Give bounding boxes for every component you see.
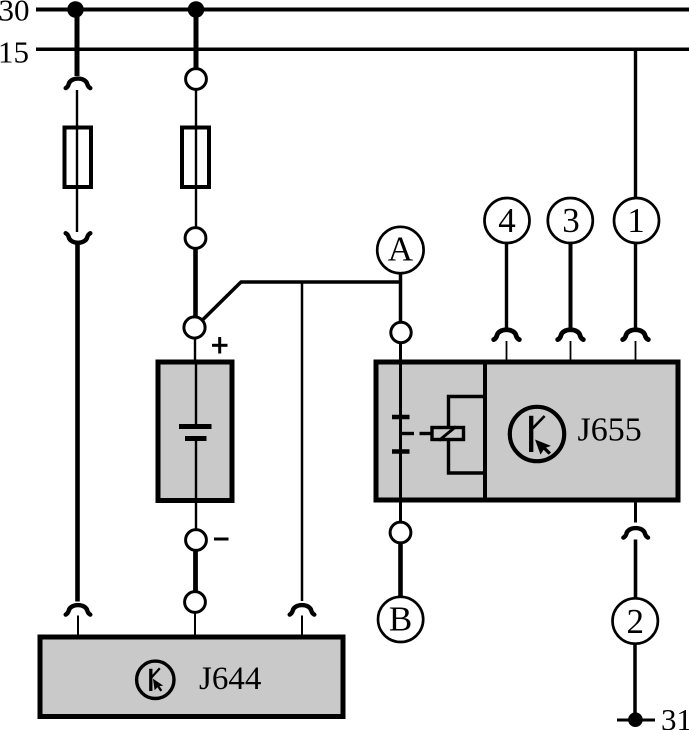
control unit symbol K in J644 [137, 661, 174, 698]
svg-text:B: B [389, 600, 412, 639]
svg-text:J644: J644 [199, 661, 261, 697]
dashed link to coil [401, 432, 432, 435]
wire stub into J655 pin1 [635, 341, 637, 361]
net label 30 [0, 0, 30, 28]
wire through fuse (left) [76, 90, 78, 232]
node wire: diagonal from battery terminal [203, 282, 402, 320]
relay coil box [432, 427, 464, 441]
terminal circle below A [391, 322, 411, 342]
wire from bus 15 down to circle 1 [634, 49, 637, 198]
control unit box J644 [40, 637, 343, 717]
label J644 [199, 661, 261, 697]
wire from 30 down left branch [75, 10, 80, 77]
connector circle 4 [485, 198, 530, 243]
fuse (battery branch) [182, 128, 209, 188]
battery internal wire bottom [195, 441, 197, 530]
ground terminal bar [617, 719, 655, 722]
svg-text:15: 15 [0, 35, 29, 70]
wire into battery box [194, 339, 196, 363]
terminal circle below bus [186, 69, 207, 90]
fuse (left branch) [65, 128, 92, 188]
plus label [212, 337, 228, 354]
svg-text:2: 2 [626, 602, 644, 641]
minus label [214, 538, 229, 541]
wire drop from A to horizontal wire [399, 273, 403, 323]
bus wire 15 [36, 48, 689, 52]
wire stub into J655 pin4 [506, 341, 508, 361]
wire below J655 pin2 [634, 500, 637, 523]
label J655 [578, 412, 642, 449]
connector half (upper arc) on left branch [66, 79, 91, 89]
connector half (upper arc) above J644 left pin [66, 605, 91, 615]
wire stub into J655 pin3 [570, 341, 572, 361]
output stage lower bar [392, 449, 410, 454]
wire through fuse (battery branch) [195, 90, 197, 228]
bus wire 30 [36, 8, 689, 12]
wire from circle 3 down [569, 243, 573, 329]
wire to node B [398, 544, 403, 597]
coil loop to divider [449, 397, 486, 474]
terminal circle below J655 output pin [390, 522, 411, 543]
terminal circle below battery minus [186, 530, 207, 551]
wire stub into J644 center pin [194, 613, 196, 636]
control unit box J655 [376, 362, 678, 500]
svg-text:3: 3 [562, 201, 580, 240]
junction dot on 30 at left branch [67, 1, 84, 18]
wire stub into J644 left pin [77, 616, 79, 637]
net label 31 [661, 702, 689, 730]
svg-text:31: 31 [661, 702, 689, 730]
node A circle [377, 227, 423, 273]
wire from 30 down battery branch [194, 10, 199, 69]
svg-text:1: 1 [627, 201, 645, 240]
terminal circle below fuse S2 [185, 228, 206, 249]
connector half arc pin4 [494, 330, 520, 340]
svg-text:A: A [388, 230, 414, 269]
wire through J655 from A [399, 343, 402, 522]
connector half (lower arc) below fuse S1 [66, 233, 91, 243]
connector circle 1 [614, 198, 659, 243]
wire between terminals [193, 249, 198, 317]
node B circle [378, 597, 423, 642]
svg-text:4: 4 [498, 201, 516, 240]
J655 internal divider [483, 362, 487, 500]
output stage upper bar [392, 415, 410, 420]
battery long plate [179, 424, 212, 429]
control unit symbol K in J655 [510, 407, 564, 461]
wire from circle 1 down [634, 243, 637, 328]
connector half arc pin3 [558, 330, 584, 340]
battery internal wire top [195, 362, 197, 426]
connector circle 2 [613, 598, 658, 643]
connector half (upper arc) above J644 right pin [290, 605, 315, 615]
connector half arc pin1 [623, 330, 649, 340]
battery A-box [158, 362, 232, 501]
svg-text:30: 30 [0, 0, 30, 28]
wire from circle 4 down [505, 243, 508, 328]
junction dot on 30 at battery branch [188, 1, 205, 18]
net label 15 [0, 35, 29, 70]
wire down left branch to J644 [75, 242, 80, 602]
connector half arc below J655 [623, 528, 648, 538]
ground junction dot [628, 712, 643, 727]
branch wire down at x302 [301, 282, 304, 601]
terminal circle above J644 center pin [185, 592, 206, 613]
wire to circle 2 [634, 540, 638, 600]
wire to ground 31 [633, 643, 637, 716]
wire between minus terminals [193, 551, 198, 592]
terminal circle above battery plus [184, 317, 205, 338]
connector circle 3 [548, 198, 593, 243]
wire stub into J644 right pin [301, 616, 303, 637]
svg-text:J655: J655 [578, 412, 642, 449]
battery short plate [185, 436, 207, 441]
